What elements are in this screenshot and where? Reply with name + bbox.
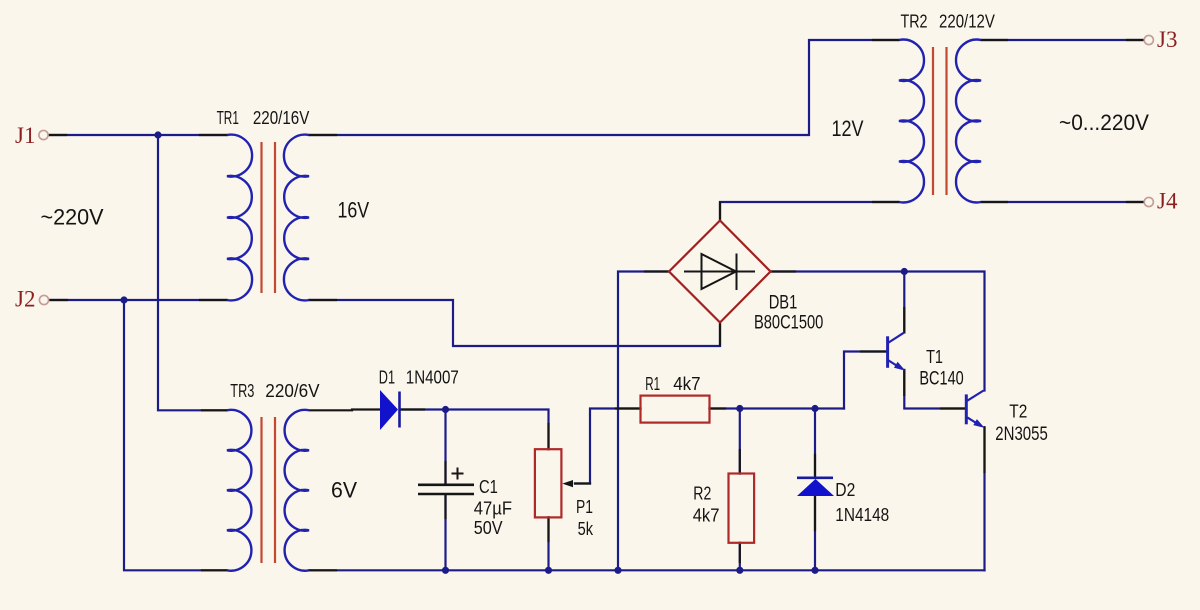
svg-text:47µF: 47µF [474, 499, 512, 519]
svg-text:TR3: TR3 [230, 381, 254, 401]
svg-text:4k7: 4k7 [673, 374, 700, 394]
svg-text:12V: 12V [832, 116, 864, 141]
svg-text:TR2: TR2 [901, 12, 928, 32]
svg-text:B80C1500: B80C1500 [754, 313, 823, 334]
svg-text:P1: P1 [576, 497, 593, 517]
svg-text:220/12V: 220/12V [939, 12, 995, 32]
svg-text:1N4007: 1N4007 [406, 368, 459, 388]
svg-text:DB1: DB1 [769, 293, 798, 314]
svg-text:4k7: 4k7 [693, 506, 720, 526]
svg-text:D1: D1 [379, 368, 395, 388]
svg-text:~0...220V: ~0...220V [1059, 110, 1149, 135]
svg-text:220/6V: 220/6V [265, 381, 319, 401]
svg-text:T2: T2 [1009, 402, 1027, 422]
svg-text:~220V: ~220V [41, 205, 104, 230]
svg-text:R1: R1 [645, 374, 660, 394]
svg-text:D2: D2 [835, 480, 855, 500]
svg-text:TR1: TR1 [217, 108, 239, 128]
svg-text:220/16V: 220/16V [253, 108, 309, 128]
svg-text:J2: J2 [15, 287, 35, 312]
svg-text:C1: C1 [479, 477, 498, 497]
svg-text:6V: 6V [331, 478, 357, 503]
svg-text:T1: T1 [926, 347, 943, 367]
svg-text:5k: 5k [578, 519, 594, 539]
svg-text:2N3055: 2N3055 [995, 424, 1048, 445]
svg-text:BC140: BC140 [919, 369, 963, 390]
svg-text:J3: J3 [1157, 27, 1177, 52]
svg-text:J4: J4 [1157, 189, 1178, 214]
svg-text:16V: 16V [338, 198, 370, 223]
svg-text:1N4148: 1N4148 [835, 505, 889, 525]
svg-text:J1: J1 [15, 123, 35, 148]
svg-text:R2: R2 [693, 484, 711, 504]
svg-text:50V: 50V [474, 518, 503, 538]
